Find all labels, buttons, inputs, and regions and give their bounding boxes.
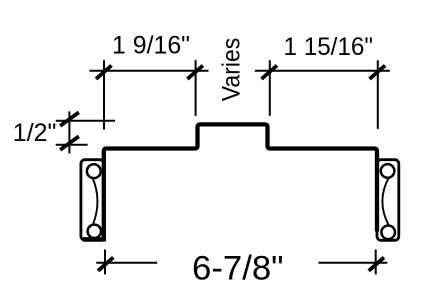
right gasket spring bbox=[382, 178, 389, 226]
dimension 1 9/16 left extension line bbox=[103, 60, 105, 129]
svg-text:1/2": 1/2" bbox=[13, 119, 57, 147]
left gasket bottom bead bbox=[88, 225, 101, 238]
dimension 1/2 bottom tick bbox=[60, 136, 79, 150]
dimension 1/2 line bbox=[68, 111, 70, 153]
dimension 6-7/8 left tick bbox=[98, 257, 113, 270]
dimension 1/2 bottom extension line bbox=[56, 144, 88, 146]
profile outline bbox=[104, 124, 377, 241]
dimension 1/2 top tick bbox=[60, 112, 79, 126]
dimension 1/2 top extension line bbox=[56, 120, 115, 122]
svg-text:6-7/8": 6-7/8" bbox=[192, 249, 284, 287]
dimension label 1 15/16" bbox=[284, 33, 374, 61]
dimension 6-7/8 left extension line bbox=[104, 250, 106, 275]
dimension 1 9/16 line bbox=[90, 70, 209, 72]
svg-text:1 9/16": 1 9/16" bbox=[112, 32, 190, 60]
dimension 1 15/16 right tick bbox=[370, 66, 386, 79]
dimension 6-7/8 right extension line bbox=[375, 250, 377, 275]
dimension 6-7/8 line left segment bbox=[96, 262, 157, 264]
left gasket top bead bbox=[87, 164, 101, 178]
dimension 1 9/16 right tick bbox=[187, 66, 203, 79]
dimension 1 9/16 right extension line bbox=[195, 60, 197, 116]
dimension label 6-7/8" bbox=[192, 249, 284, 287]
svg-text:Varies: Varies bbox=[218, 38, 246, 102]
dimension 6-7/8 right tick bbox=[369, 257, 384, 270]
dimension 6-7/8 line right segment bbox=[319, 262, 388, 264]
dimension 1 15/16 left tick bbox=[262, 66, 278, 79]
left gasket base plate bbox=[83, 237, 103, 242]
left gasket frame bbox=[81, 160, 104, 240]
svg-text:1 15/16": 1 15/16" bbox=[284, 33, 374, 61]
dimension 1 9/16 left tick bbox=[96, 66, 112, 79]
dimension label 1/2" bbox=[13, 119, 57, 147]
right gasket frame bbox=[377, 160, 399, 241]
dimension 1 15/16 right extension line bbox=[377, 60, 379, 129]
varies label bbox=[218, 38, 246, 102]
dimension 1 15/16 line bbox=[255, 70, 390, 72]
dimension label 1 9/16" bbox=[112, 32, 190, 60]
left gasket spring bbox=[93, 178, 98, 225]
right gasket bottom bead bbox=[381, 226, 395, 240]
dimension 1 15/16 left extension line bbox=[269, 60, 271, 116]
right gasket top bead bbox=[381, 164, 395, 178]
